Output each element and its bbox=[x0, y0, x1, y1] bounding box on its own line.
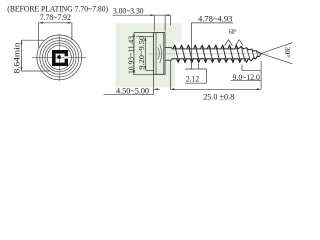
svg-text:9.20~9.50: 9.20~9.50 bbox=[137, 36, 146, 70]
svg-text:30°: 30° bbox=[283, 47, 292, 58]
svg-text:9.0~12.0: 9.0~12.0 bbox=[233, 73, 260, 82]
svg-text:10.93~11.43: 10.93~11.43 bbox=[127, 36, 136, 74]
svg-text:3.00~3.30: 3.00~3.30 bbox=[113, 7, 144, 16]
svg-text:2.12: 2.12 bbox=[186, 75, 199, 84]
svg-text:25.0 ±0.8: 25.0 ±0.8 bbox=[203, 93, 234, 102]
svg-text:(BEFORE PLATING 7.70~7.80): (BEFORE PLATING 7.70~7.80) bbox=[7, 3, 108, 13]
svg-text:60°: 60° bbox=[229, 27, 237, 36]
svg-text:7.78~7.92: 7.78~7.92 bbox=[40, 13, 71, 22]
svg-text:4.50~5.00: 4.50~5.00 bbox=[116, 87, 149, 96]
svg-text:8.64min: 8.64min bbox=[12, 43, 21, 74]
svg-text:4.78~4.93: 4.78~4.93 bbox=[198, 14, 232, 23]
